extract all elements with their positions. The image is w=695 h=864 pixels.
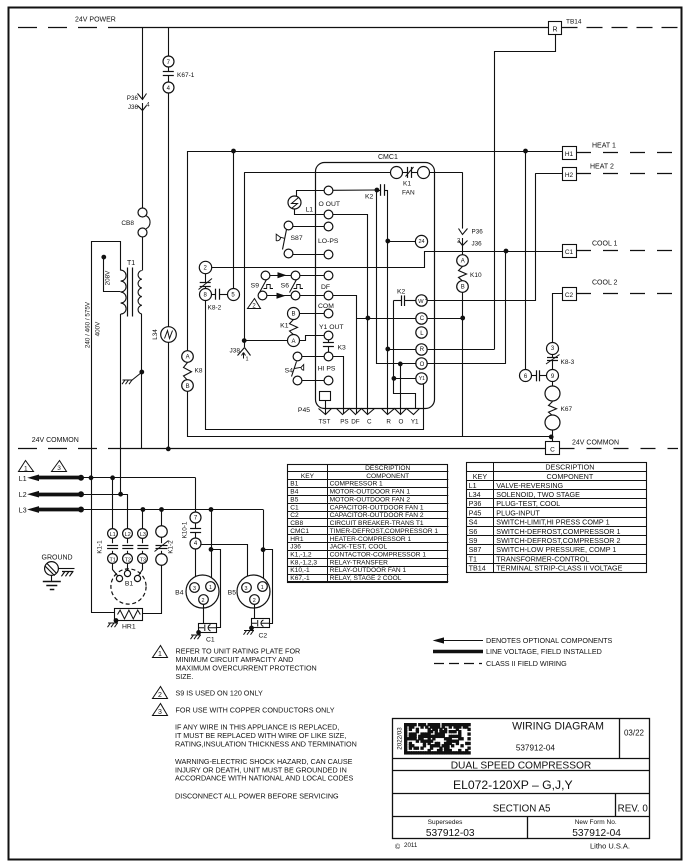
svg-text:T1: T1 [469, 554, 477, 563]
pin LO-PS 1 [324, 222, 333, 231]
svg-text:J38: J38 [230, 348, 241, 355]
svg-text:K1: K1 [403, 181, 411, 188]
wire K10-1 pin4 to B5 pin 3 [202, 545, 248, 583]
svg-text:3: 3 [158, 709, 162, 716]
motor B5 outdoor fan 2 [237, 575, 270, 608]
plug P45 input [320, 392, 331, 401]
relay contact K8-3 [552, 354, 554, 357]
svg-text:K8,-1,2,3: K8,-1,2,3 [290, 559, 317, 566]
switch S87 low pressure [284, 221, 293, 230]
svg-text:MOTOR-OUTDOOR FAN 2: MOTOR-OUTDOOR FAN 2 [330, 496, 411, 503]
svg-text:RATING,INSULATION THICKNESS AN: RATING,INSULATION THICKNESS AND TERMINAT… [175, 739, 357, 748]
junction K2 left [375, 188, 379, 192]
svg-text:K67: K67 [561, 406, 573, 413]
compressor B1 [111, 569, 146, 604]
svg-text:R: R [386, 419, 391, 426]
svg-text:C: C [550, 447, 555, 454]
junction L34/common [166, 447, 170, 451]
wire A to Y1 OUT pin [300, 336, 325, 341]
P45 teeth R O Y1 [382, 409, 420, 415]
svg-text:COMPRESSOR 1: COMPRESSOR 1 [330, 481, 383, 488]
svg-text:Litho U.S.A.: Litho U.S.A. [590, 842, 630, 851]
svg-text:Y1: Y1 [411, 419, 419, 426]
svg-text:K8: K8 [195, 368, 203, 375]
svg-text:K10-1: K10-1 [182, 521, 189, 538]
wire R rail y=151 to H1 [188, 151, 562, 153]
svg-text:R: R [552, 27, 557, 34]
svg-text:K1-2: K1-2 [168, 540, 175, 554]
svg-text:DESCRIPTION: DESCRIPTION [545, 463, 594, 472]
svg-text:B5: B5 [228, 590, 237, 597]
svg-text:SWITCH-LIMIT,HI PRESS COMP 1: SWITCH-LIMIT,HI PRESS COMP 1 [496, 518, 609, 527]
svg-text:1: 1 [246, 357, 249, 363]
wire L1 row [81, 477, 196, 479]
pin A of K8 [182, 351, 194, 363]
wire T1 primary bottom lead to L2 [120, 314, 122, 494]
relay contact K8-2 plates to pin 5 [211, 294, 216, 296]
svg-text:MAXIMUM OVERCURRENT PROTECTION: MAXIMUM OVERCURRENT PROTECTION [176, 664, 317, 673]
svg-text:HI PS: HI PS [318, 366, 336, 373]
table key left [288, 465, 448, 583]
svg-text:SWITCH-DEFROST,COMPRESSOR 2: SWITCH-DEFROST,COMPRESSOR 2 [496, 536, 620, 545]
svg-text:CAPACITOR-OUTDOOR FAN 1: CAPACITOR-OUTDOOR FAN 1 [330, 504, 424, 511]
svg-text:©: © [395, 843, 401, 851]
wire T1 primary top lead [92, 242, 121, 613]
junction Y1 row [392, 377, 396, 381]
svg-text:208V: 208V [105, 270, 112, 286]
svg-text:CMC1: CMC1 [378, 154, 398, 161]
ground at HR1 [114, 619, 118, 623]
svg-text:L1: L1 [469, 481, 477, 490]
svg-text:2011: 2011 [404, 842, 418, 849]
terminal C2 / COOL 2 [563, 288, 577, 301]
wire H1 to pin 6 [525, 151, 527, 370]
svg-text:JACK-TEST, COOL: JACK-TEST, COOL [330, 544, 388, 551]
svg-text:HR1: HR1 [122, 624, 136, 631]
note triangle 1 (left) [19, 461, 34, 472]
pin 7 circle [190, 512, 201, 523]
svg-text:B5: B5 [290, 496, 298, 503]
pin A of K10 [457, 255, 469, 267]
svg-text:SIZE.: SIZE. [176, 672, 194, 681]
svg-text:2: 2 [158, 692, 162, 699]
svg-text:HEATER-COMPRESSOR 1: HEATER-COMPRESSOR 1 [330, 536, 412, 543]
wire O to COOL1 node [401, 363, 506, 365]
wire A to J38 tap [244, 340, 287, 342]
junction C row [461, 316, 465, 320]
svg-text:COMPONENT: COMPONENT [366, 473, 409, 480]
svg-text:PLUG-TEST, COOL: PLUG-TEST, COOL [496, 499, 560, 508]
svg-text:SOLENOID, TWO STAGE: SOLENOID, TWO STAGE [496, 490, 580, 499]
title block frame [393, 719, 650, 839]
svg-text:S87: S87 [469, 545, 482, 554]
svg-text:L3: L3 [140, 532, 146, 538]
svg-text:S6: S6 [469, 527, 478, 536]
svg-text:KEY: KEY [301, 473, 315, 480]
svg-text:P36: P36 [469, 499, 482, 508]
svg-text:537912-04: 537912-04 [572, 828, 621, 839]
svg-text:3: 3 [193, 586, 196, 592]
svg-text:1: 1 [24, 466, 28, 473]
solenoid L34 (two stage) [161, 327, 177, 343]
svg-text:WIRING DIAGRAM: WIRING DIAGRAM [512, 721, 604, 733]
relay contact K2 (upper) [380, 184, 382, 196]
relay K67 stage 2 cool: top circle [545, 386, 560, 401]
wire J36 to CB8 [142, 111, 144, 209]
svg-text:S9: S9 [251, 283, 260, 290]
T1 primary winding [121, 270, 127, 314]
svg-text:K3: K3 [338, 345, 347, 352]
contact between 6 and 9 [532, 375, 537, 377]
note triangle 2 with text [153, 687, 168, 699]
svg-text:1: 1 [158, 651, 162, 658]
pin Y1 OUT a [324, 309, 333, 318]
svg-text:O: O [420, 362, 425, 368]
wire power rail to relay contact K67-1 [168, 27, 170, 56]
relay contact K67-1 [168, 67, 170, 71]
pin L [416, 327, 427, 338]
relay contact K2 (lower, to W1) [394, 300, 402, 302]
terminal H1 / HEAT 1 [563, 147, 577, 160]
svg-text:DF: DF [351, 419, 360, 426]
relay coil K8 (transfer) [184, 363, 192, 381]
wire K10 return to common [462, 292, 464, 437]
svg-text:K8-3: K8-3 [561, 359, 575, 366]
svg-text:TRANSFORMER-CONTROL: TRANSFORMER-CONTROL [496, 554, 589, 563]
wire to terminal 24 [388, 241, 416, 243]
svg-text:K2: K2 [397, 289, 406, 296]
svg-text:537912-04: 537912-04 [516, 744, 556, 753]
svg-text:B: B [186, 384, 190, 390]
pin A of K1 coil [288, 335, 300, 347]
P45 teeth PS DF C [337, 409, 375, 415]
svg-text:RELAY-OUTDOOR FAN 1: RELAY-OUTDOOR FAN 1 [330, 567, 407, 574]
wire C2 right feed [264, 550, 273, 624]
pin LO-PS 2 [324, 250, 333, 259]
svg-text:L1: L1 [19, 476, 27, 483]
barcode datamatrix [405, 724, 471, 755]
legend optional components arrow [442, 640, 483, 642]
pin HI PS 2 [324, 376, 333, 385]
junction COOL1 node [504, 249, 508, 253]
circuit breaker CB8 [138, 208, 147, 217]
svg-text:P45: P45 [298, 407, 310, 414]
wire K67 to C terminal [552, 430, 554, 441]
terminal 24 [415, 235, 427, 247]
svg-text:B4: B4 [290, 489, 298, 496]
note triangle 2 [248, 299, 261, 309]
wire C2 to K8-3 chain [553, 294, 563, 343]
svg-text:S4: S4 [469, 518, 478, 527]
contactor K1-1 pole L2/T2 [123, 529, 133, 539]
wire pin2 to COOL1 net (through box) [212, 252, 507, 268]
svg-text:COOL 2: COOL 2 [592, 280, 618, 287]
svg-text:L2: L2 [19, 492, 27, 499]
svg-text:B1: B1 [290, 481, 298, 488]
wire COM to P45 DF tooth [333, 296, 357, 414]
svg-text:240 / 460 / 575V: 240 / 460 / 575V [85, 301, 92, 348]
legend class II dashed line [434, 663, 482, 665]
wire R row left to K2 net junction [388, 349, 416, 351]
junction C terminal [549, 435, 553, 439]
svg-text:B: B [461, 285, 465, 291]
svg-text:P45: P45 [469, 508, 482, 517]
svg-text:L34: L34 [469, 490, 481, 499]
pin HI PS 1 [324, 352, 333, 361]
junction C row tap [366, 316, 370, 320]
capacitor C1 outdoor fan 1 [203, 604, 205, 623]
wire O OUT 1 to contact K2 [333, 189, 377, 191]
wire Y1 pin bottom to return line [423, 383, 425, 385]
svg-text:Y1: Y1 [419, 376, 425, 382]
wire L34 to 24V COMMON rail [168, 342, 170, 449]
svg-text:K2: K2 [365, 194, 374, 201]
svg-text:C2: C2 [259, 633, 268, 640]
junction 24 tap [386, 239, 390, 243]
svg-text:REV. 0: REV. 0 [618, 804, 649, 815]
svg-text:K8-2: K8-2 [208, 305, 222, 312]
pin B of K1 coil [288, 308, 300, 320]
timer-defrost CMC1 box [316, 163, 435, 409]
svg-text:New Form No.: New Form No. [575, 819, 617, 826]
svg-text:TIMER-DEFROST,COMPRESSOR 1: TIMER-DEFROST,COMPRESSOR 1 [330, 528, 439, 535]
svg-text:O OUT: O OUT [319, 201, 341, 208]
switch S9 defrost compressor 2 [261, 271, 270, 280]
svg-text:HR1: HR1 [290, 536, 304, 543]
svg-text:ACCORDANCE WITH NATIONAL AND L: ACCORDANCE WITH NATIONAL AND LOCAL CODES [175, 774, 353, 783]
relay contact K10-1 [195, 523, 197, 529]
svg-text:P36: P36 [127, 95, 139, 102]
svg-text:CIRCUIT BREAKER-TRANS T1: CIRCUIT BREAKER-TRANS T1 [330, 520, 424, 527]
svg-text:TB14: TB14 [566, 19, 582, 26]
svg-text:S87: S87 [291, 235, 303, 242]
wire circle8 to Y1 pin return [206, 301, 424, 430]
svg-text:400V: 400V [95, 321, 102, 337]
svg-text:T1: T1 [109, 557, 115, 563]
pin Y1 OUT b [324, 331, 333, 340]
svg-text:1: 1 [209, 585, 212, 591]
svg-text:Supersedes: Supersedes [428, 819, 463, 826]
relay contact K3 [328, 340, 330, 343]
wire pin4 to B4 pin 3 [195, 549, 197, 583]
svg-text:FOR USE WITH COPPER CONDUCTORS: FOR USE WITH COPPER CONDUCTORS ONLY [176, 706, 335, 715]
svg-text:K10: K10 [470, 272, 482, 279]
svg-text:H2: H2 [565, 172, 574, 179]
jack J38 test symbol [238, 348, 251, 356]
svg-text:C1: C1 [290, 504, 299, 511]
svg-text:MOTOR-OUTDOOR FAN 1: MOTOR-OUTDOOR FAN 1 [330, 489, 411, 496]
svg-text:J36: J36 [290, 544, 301, 551]
svg-text:DENOTES OPTIONAL COMPONENTS: DENOTES OPTIONAL COMPONENTS [486, 636, 613, 645]
svg-text:PS: PS [340, 419, 348, 426]
junction O row [398, 362, 402, 366]
heater HR1 [115, 609, 143, 621]
contactor K1-1 pole L3/T3 [138, 529, 148, 539]
junction A-coil tap [242, 339, 246, 343]
relay coil K1 (contactor compressor 1) [290, 320, 298, 335]
svg-text:O: O [398, 419, 403, 426]
svg-text:24V COMMON: 24V COMMON [572, 440, 619, 447]
svg-text:COM: COM [318, 303, 334, 310]
pin 3 circle [547, 343, 559, 355]
svg-text:A: A [186, 355, 190, 361]
terminal H2 / HEAT 2 [563, 168, 577, 181]
svg-text:A: A [461, 259, 465, 265]
svg-text:2: 2 [253, 598, 256, 604]
svg-text:2: 2 [202, 598, 205, 604]
wire C1 right feed [212, 550, 221, 628]
wire C1 to node [506, 251, 562, 253]
svg-text:GROUND: GROUND [42, 555, 73, 562]
pin B of K10 [457, 281, 469, 293]
svg-text:B1: B1 [125, 581, 134, 588]
svg-text:C: C [367, 419, 372, 426]
svg-text:W: W [418, 299, 424, 305]
pin R [416, 344, 427, 355]
relay coil K10 (outdoor fan 1) [459, 267, 467, 281]
svg-text:B: B [291, 312, 295, 318]
pin 5 circle [228, 289, 240, 301]
wire K2 right to 24 and P45 R tooth [387, 190, 389, 414]
wires T1 T2 T3 to B1 [113, 564, 118, 576]
note triangle 1 with text [153, 646, 168, 658]
pin B of K8 [182, 380, 194, 392]
pin 2 circle [199, 261, 211, 273]
svg-text:T3: T3 [140, 557, 146, 563]
pin 7 [163, 56, 174, 67]
svg-text:EL072-120XP – G,J,Y: EL072-120XP – G,J,Y [453, 778, 573, 792]
svg-text:3: 3 [57, 465, 61, 472]
svg-text:P36: P36 [472, 229, 484, 236]
svg-text:C1: C1 [206, 637, 215, 644]
relay coil K67 [549, 402, 557, 416]
wire FAN left to J38 drop [244, 172, 390, 174]
relay K67 bottom circle [545, 415, 560, 430]
svg-text:CMC1: CMC1 [290, 528, 309, 535]
wire L2 row [81, 494, 128, 496]
svg-text:K1: K1 [280, 323, 289, 330]
wire R box to R pin column [495, 35, 556, 350]
svg-text:RELAY-TRANSFER: RELAY-TRANSFER [330, 559, 388, 566]
svg-text:C2: C2 [565, 292, 574, 299]
P45 teeth TST [319, 409, 332, 415]
svg-text:24V COMMON: 24V COMMON [32, 437, 79, 444]
svg-text:SECTION A5: SECTION A5 [493, 804, 551, 815]
svg-text:DF: DF [321, 284, 330, 291]
switch S6 defrost compressor 1 [291, 271, 300, 280]
svg-text:FAN: FAN [402, 190, 415, 197]
pin 9 circle [547, 370, 559, 382]
svg-text:R: R [420, 347, 425, 353]
pin O OUT 2 [324, 210, 333, 219]
wire O row to P45 O tooth [400, 364, 402, 414]
wire L1 to K10-1 [195, 478, 197, 512]
wire K8 to 24V common right rail [188, 392, 552, 437]
plug P36 / jack J36 (right) [459, 229, 468, 235]
svg-text:03/22: 03/22 [624, 729, 645, 738]
pin C [416, 313, 427, 324]
note triangle 3 (left) [52, 461, 67, 472]
note triangle 3 with text [153, 704, 168, 716]
wire K2 left drop to O row [377, 191, 401, 364]
plug P36 / jack J36 (test, cool) arrows [138, 94, 147, 100]
node 208V tap of T1 [102, 255, 106, 259]
svg-text:L3: L3 [19, 508, 27, 515]
svg-text:S6: S6 [281, 283, 290, 290]
svg-text:LO-PS: LO-PS [318, 238, 339, 245]
svg-text:S9 IS USED ON 120 ONLY: S9 IS USED ON 120 ONLY [176, 689, 264, 698]
svg-text:C1: C1 [565, 249, 574, 256]
table key right [467, 463, 647, 573]
svg-text:B4: B4 [175, 590, 184, 597]
switch S4 hi pressure limit [293, 352, 302, 361]
svg-text:L1: L1 [110, 532, 116, 538]
svg-text:K1,-1,2: K1,-1,2 [290, 552, 312, 559]
junction rail/circle5 column [232, 149, 236, 153]
wire left edge with relay coil K8 [187, 151, 189, 351]
pin 6 circle [520, 370, 532, 382]
wire class II field dashed right of R [562, 27, 681, 29]
wire pin 4 to solenoid L34 [168, 93, 170, 326]
svg-text:TB14: TB14 [469, 564, 486, 573]
motor B4 outdoor fan 1 [186, 575, 219, 608]
wire 24V power drop to plug P36 [142, 27, 144, 99]
pin DF [324, 271, 333, 280]
pin COM [324, 291, 333, 300]
svg-text:KEY: KEY [473, 472, 488, 481]
svg-text:LINE VOLTAGE, FIELD INSTALLED: LINE VOLTAGE, FIELD INSTALLED [486, 647, 602, 656]
pin O [416, 358, 427, 369]
svg-text:COMPONENT: COMPONENT [547, 472, 594, 481]
svg-text:L34: L34 [152, 329, 159, 340]
svg-text:DISCONNECT ALL POWER BEFORE SE: DISCONNECT ALL POWER BEFORE SERVICING [175, 792, 339, 801]
svg-text:H1: H1 [565, 151, 574, 158]
svg-text:PLUG-INPUT: PLUG-INPUT [496, 508, 540, 517]
wire L3 to B4 pin 1 [211, 510, 213, 582]
wire S9-S6 lower row to COM [267, 295, 291, 297]
pin Y1 [416, 373, 427, 384]
svg-text:K1-1: K1-1 [97, 540, 104, 554]
wire L3 row [81, 509, 263, 511]
wire K1-2 to HR1 [143, 566, 162, 614]
svg-text:SWITCH-DEFROST,COMPRESSOR 1: SWITCH-DEFROST,COMPRESSOR 1 [496, 527, 620, 536]
pin 8 circle [200, 289, 212, 301]
svg-text:24: 24 [418, 239, 424, 245]
svg-text:J36: J36 [472, 241, 483, 248]
wire 24V POWER rail (dashed field wiring + solid) [18, 27, 112, 29]
wire HR1 left feed [91, 612, 114, 614]
svg-text:CLASS II FIELD WIRING: CLASS II FIELD WIRING [486, 659, 567, 668]
relay contact K8-2 (vertical, with slash) [205, 274, 207, 283]
wire Y1 pin to junction [394, 378, 416, 380]
svg-text:TERMINAL STRIP-CLASS II VOLTAG: TERMINAL STRIP-CLASS II VOLTAGE [496, 564, 622, 573]
svg-text:K67-1: K67-1 [177, 72, 195, 79]
wire L3 to B5 pin 1 [263, 510, 265, 582]
B1 terminals [116, 575, 122, 581]
svg-text:S9: S9 [469, 536, 478, 545]
terminal R of TB14 [549, 22, 562, 35]
svg-text:T1: T1 [127, 260, 135, 267]
svg-text:SWITCH-LOW PRESSURE, COMP 1: SWITCH-LOW PRESSURE, COMP 1 [496, 545, 616, 554]
pin 4 [163, 82, 174, 93]
svg-text:24V POWER: 24V POWER [75, 17, 116, 24]
pin O OUT 1 [324, 186, 333, 195]
svg-text:COOL 1: COOL 1 [592, 241, 618, 248]
pin 4 circle [190, 538, 201, 549]
svg-text:HEAT 1: HEAT 1 [592, 143, 616, 150]
svg-text:HEAT 2: HEAT 2 [590, 164, 614, 171]
pin W1 [416, 295, 427, 306]
